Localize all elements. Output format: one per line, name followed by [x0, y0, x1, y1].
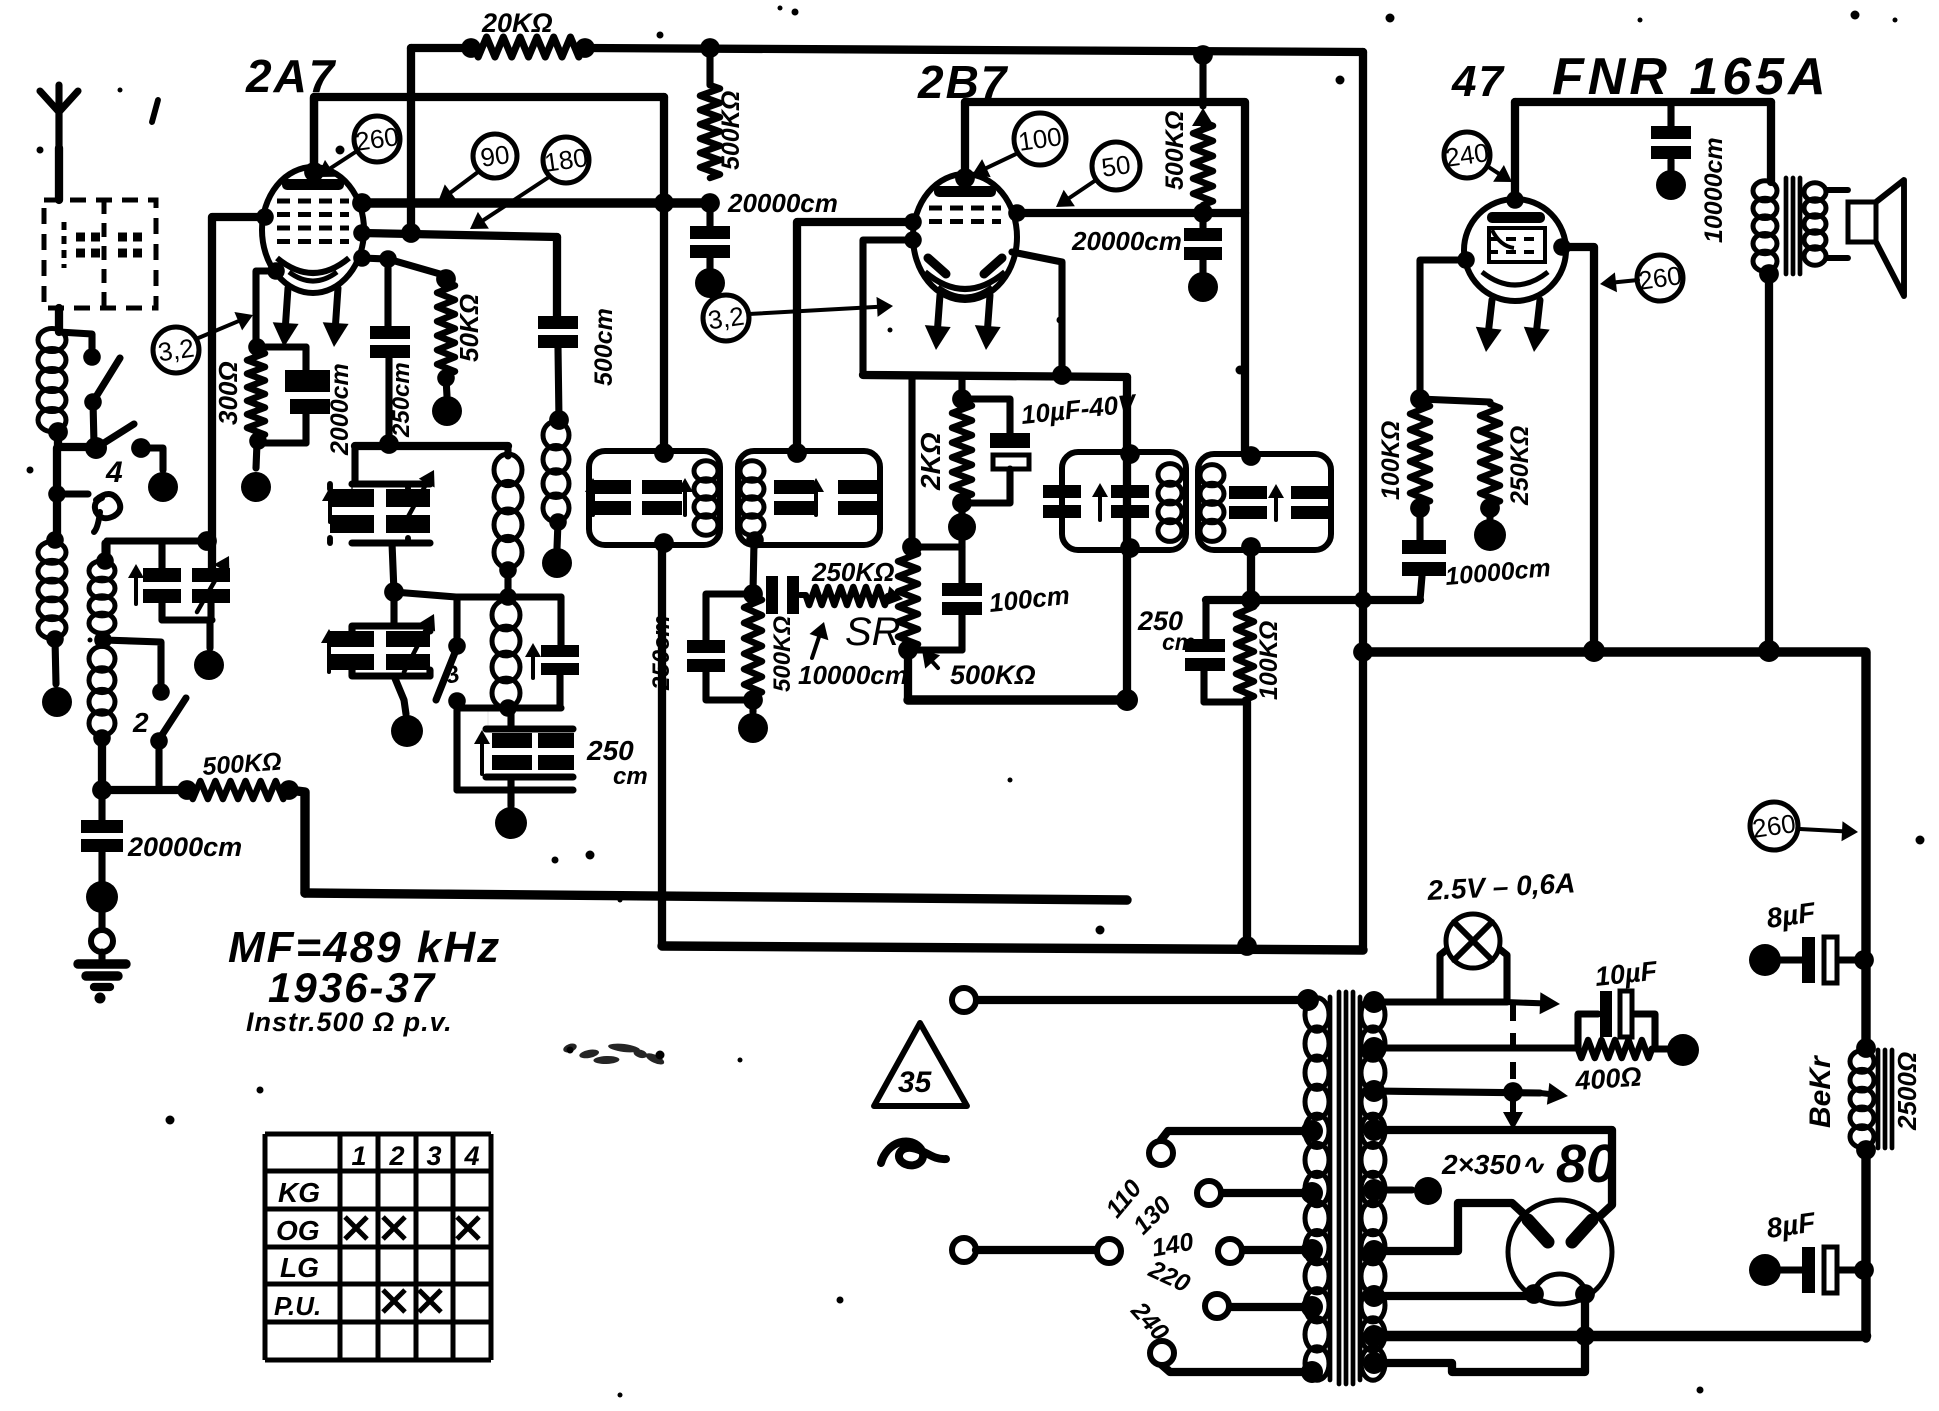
switch 1 contact — [83, 348, 101, 366]
ground blob L1b — [42, 687, 72, 717]
label 3 — [443, 660, 464, 690]
capacitor 20000cm antenna — [81, 790, 123, 852]
wire L1 tap to switch 1 — [59, 332, 92, 350]
coil osc1 — [494, 446, 522, 568]
wire L1 bottom bus — [58, 432, 96, 448]
coil L2 lower — [89, 646, 115, 735]
terminal tap110 — [1149, 1141, 1173, 1165]
label 250cm padder — [586, 735, 648, 790]
switch 3 pivot — [448, 692, 466, 710]
blob 400R — [1667, 1034, 1699, 1066]
bias bus — [1420, 399, 1490, 402]
svg-text:FNR 165A: FNR 165A — [1552, 48, 1830, 106]
IF4 cap2 — [1291, 486, 1329, 519]
osc3 bottom bus — [457, 701, 561, 708]
label 240 — [1125, 1296, 1174, 1347]
svg-text:300Ω: 300Ω — [213, 361, 243, 425]
node 500Kr bottom — [1193, 203, 1213, 223]
2B7 g2 line — [1017, 209, 1245, 217]
svg-text:LG: LG — [280, 1252, 319, 1283]
svg-text:10000cm: 10000cm — [1700, 137, 1728, 243]
svg-text:1936-37: 1936-37 — [268, 964, 436, 1011]
node L1 bottom — [48, 422, 68, 442]
node 8uF upper — [1854, 950, 1874, 970]
cathode bus 2B7 — [863, 375, 1127, 377]
wire L2 bottom down — [98, 738, 106, 790]
label 100KOhm det — [1255, 621, 1283, 700]
node sec 1336 — [1363, 1325, 1385, 1347]
svg-text:OG: OG — [276, 1215, 320, 1246]
lamp 2.5V — [1446, 914, 1500, 968]
svg-text:3,2: 3,2 — [156, 333, 196, 368]
node osc mid — [384, 582, 404, 602]
variable capacitor osc1a — [322, 487, 374, 533]
OT secondary — [1804, 183, 1826, 265]
blob 20000cm screen — [695, 268, 725, 298]
svg-text:35: 35 — [898, 1066, 933, 1099]
wire switch2 pivot down — [155, 741, 162, 788]
svg-text:50KΩ: 50KΩ — [454, 294, 484, 362]
switch 3 contact — [448, 637, 466, 655]
node sec 1048 — [1363, 1037, 1385, 1059]
node dashed cross — [1503, 1082, 1523, 1102]
dashed trimmer cap B — [118, 237, 146, 253]
label 10uF-40V — [1019, 388, 1139, 430]
potentiometer SR 500K — [898, 550, 918, 648]
svg-text:20KΩ: 20KΩ — [481, 8, 553, 38]
label BeKr — [1804, 1054, 1837, 1128]
svg-text:2: 2 — [132, 707, 149, 738]
capacitor 250cm det — [1185, 600, 1225, 702]
node tap220 — [1301, 1296, 1323, 1318]
heater arrow 2B7 left — [925, 295, 951, 350]
wire tap140 — [1242, 1246, 1312, 1254]
capacitor 10000cm plate — [1651, 102, 1691, 170]
svg-text:500KΩ: 500KΩ — [950, 660, 1036, 690]
table row OG — [276, 1215, 320, 1246]
2B7 top box — [965, 102, 1245, 453]
terminal tap220 — [1205, 1294, 1229, 1318]
arrow 50 to line — [1056, 180, 1096, 207]
wire L2 riser — [101, 543, 108, 562]
wire switch1 to bus — [93, 402, 94, 444]
wire fil right path — [1374, 1294, 1585, 1372]
svg-text:50: 50 — [1100, 149, 1133, 183]
2A7 top cap box wire — [314, 97, 664, 172]
node coil osc1 bottom — [499, 561, 517, 579]
variable capacitor ant trim B — [192, 556, 230, 612]
wire L1 down — [53, 448, 61, 540]
node 2K stub — [952, 389, 972, 409]
node sec top — [1363, 991, 1385, 1013]
node 2A7 cath left — [267, 262, 285, 280]
node fil right pin — [1575, 1284, 1595, 1304]
node osc3 bottom — [499, 699, 517, 717]
label 130 — [1128, 1191, 1177, 1240]
wire tap130 — [1221, 1189, 1312, 1197]
svg-text:500KΩ: 500KΩ — [201, 748, 282, 781]
svg-text:KG: KG — [278, 1177, 320, 1208]
label 10000cm AVC — [798, 660, 908, 690]
terminal tap130 — [1197, 1181, 1221, 1205]
47 bias wire — [1420, 251, 1475, 399]
wire IF2 to AVC node — [753, 542, 754, 592]
node fil left pin — [1524, 1284, 1544, 1304]
wire det to gnd rail — [1243, 702, 1251, 946]
table row KG — [278, 1177, 320, 1208]
fuse squiggle — [881, 1141, 946, 1165]
svg-text:260: 260 — [1750, 808, 1797, 844]
svg-text:80: 80 — [1556, 1134, 1616, 1194]
capacitor 10000cm bias — [1402, 508, 1446, 600]
label 100KOhm bias — [1377, 421, 1405, 500]
coil L1b — [38, 542, 66, 639]
table row LG — [280, 1252, 319, 1283]
wire mains top — [975, 996, 1308, 1004]
ant trimmer stub — [158, 541, 165, 568]
node B+ 652 — [1353, 642, 1373, 662]
node 2K bottom — [952, 493, 972, 513]
label 10000cm plate — [1700, 137, 1728, 243]
capacitor 20000cm diode — [1184, 213, 1222, 272]
label 250cm osc — [388, 362, 415, 438]
variable capacitor osc2b — [386, 614, 435, 672]
wire to cath blob — [256, 443, 257, 468]
node sec 1130 — [1363, 1119, 1385, 1141]
node 50K bottom — [437, 369, 455, 387]
svg-text:4: 4 — [105, 456, 123, 489]
speaker — [1827, 180, 1904, 296]
switch 4 arm — [96, 424, 134, 448]
label 500KOhm SR — [922, 650, 1036, 690]
terminal mains left — [952, 1238, 976, 1262]
PT secondary — [1360, 997, 1385, 1380]
resistor 100KOhm det — [1236, 603, 1254, 700]
label 250cm AVC — [648, 615, 675, 691]
svg-text:20000cm: 20000cm — [127, 832, 242, 862]
node 2A7 g2 pin — [352, 193, 372, 213]
switch 1 arm — [94, 358, 120, 400]
node IF3 bottom — [1120, 538, 1140, 558]
arrow 100 to top cap — [972, 153, 1018, 177]
arrow 10000cm to cap — [810, 622, 829, 658]
node AVC bottom — [743, 690, 763, 710]
blob osc — [391, 715, 423, 747]
value circle 3,2 right — [703, 295, 749, 341]
node sec 1363 — [1363, 1352, 1385, 1374]
osc bottom bus — [457, 786, 573, 793]
2B7 top cap lead — [955, 102, 975, 188]
PT primary — [1305, 997, 1330, 1380]
node PT prim top — [1297, 989, 1319, 1011]
wire 20K vertical — [407, 48, 415, 233]
wire HV bottom — [1374, 1203, 1526, 1251]
variable capacitor padder a — [474, 730, 532, 774]
capacitor 250cm AVC — [687, 594, 753, 700]
capacitor padder b — [538, 733, 574, 770]
node 20K left — [461, 38, 481, 58]
svg-text:cm: cm — [613, 763, 648, 790]
node rail OT — [1758, 640, 1780, 662]
wire lamp tap — [1374, 998, 1440, 1005]
svg-text:20000cm: 20000cm — [727, 188, 838, 218]
wire 500K to gnd rail — [289, 790, 305, 893]
table X OG-4 — [457, 1217, 479, 1239]
node L2 mid — [94, 631, 112, 649]
blob 2B7 cathode — [948, 513, 976, 541]
capacitor 10uF filament — [1578, 991, 1655, 1048]
wire cap to blob — [98, 852, 105, 882]
heater arrow 2A7 right — [323, 288, 349, 347]
label 20000cm diode — [1071, 226, 1182, 256]
padder bus bottom — [486, 777, 573, 790]
wire osc mid to switch bus — [394, 592, 456, 597]
svg-text:cm: cm — [1162, 629, 1195, 655]
ant trimmer riser — [103, 541, 110, 560]
node IF1 bottom — [654, 533, 674, 553]
osc top bus — [355, 442, 508, 450]
osc pair1 frame — [352, 446, 430, 484]
node sec 1190 — [1363, 1179, 1385, 1201]
PT core — [1339, 992, 1353, 1384]
blob AVC — [738, 713, 768, 743]
resistor 500KOhm AVC — [744, 596, 762, 696]
node 20K drop — [401, 223, 421, 243]
47 grid wire — [1562, 247, 1594, 650]
node tap240 — [1301, 1361, 1323, 1383]
label 110 — [1100, 1175, 1147, 1224]
label 2.5V-0.6A — [1426, 867, 1576, 906]
wire antenna to coil L1 — [55, 308, 63, 332]
node 300R bottom — [249, 432, 267, 450]
svg-text:2500Ω: 2500Ω — [1892, 1052, 1922, 1131]
label Instr — [246, 1007, 453, 1037]
label FNR 165A — [1552, 48, 1830, 106]
wire IF1 down to gnd rail — [658, 545, 666, 946]
hook 9 wire — [57, 494, 120, 532]
IF can 1 box — [589, 451, 720, 545]
arrow 3,2 to tube — [196, 312, 253, 339]
node 250cm top — [379, 250, 397, 268]
label 80 — [1556, 1134, 1616, 1194]
label 300Ohm — [213, 361, 243, 425]
AGC bus y700 — [908, 695, 1127, 704]
value circle 240 — [1443, 132, 1490, 178]
osc padder frame — [457, 708, 511, 790]
node 2A7 g1 pin — [353, 224, 371, 242]
terminal blob P.U. top — [148, 472, 178, 502]
wire tap110 — [1161, 1131, 1312, 1140]
B+ vertical — [1359, 52, 1367, 950]
terminal mains top — [952, 988, 976, 1012]
svg-text:500KΩ: 500KΩ — [1161, 111, 1189, 190]
capacitor 100cm — [942, 547, 982, 650]
wire mains pair — [976, 1246, 1096, 1254]
coil osc3 — [492, 600, 520, 708]
svg-text:SR: SR — [845, 610, 901, 654]
antenna bottom bus — [102, 786, 187, 794]
node AVC junction — [743, 584, 763, 604]
node 2B7 g2 — [1008, 204, 1026, 222]
blob 10000cm plate — [1656, 170, 1686, 200]
wire HV mid to blob — [1374, 1186, 1412, 1193]
wire 400R tap — [1374, 1044, 1578, 1051]
svg-text:2: 2 — [388, 1141, 404, 1171]
node ant trimmer bus — [197, 531, 217, 551]
resistor 100KOhm bias — [1410, 402, 1430, 505]
svg-text:2×350∿: 2×350∿ — [1441, 1149, 1545, 1180]
top rail right — [585, 48, 1363, 52]
2B7 cathode box — [863, 240, 913, 375]
node sec 1091 — [1363, 1080, 1385, 1102]
node hook — [48, 485, 66, 503]
label 10000cm bias — [1444, 554, 1552, 591]
svg-text:100KΩ: 100KΩ — [1255, 621, 1283, 700]
node IF3 top — [1120, 444, 1140, 464]
wire IF2 to 2B7 grid — [797, 222, 912, 451]
blob 20000cm diode — [1188, 272, 1218, 302]
capacitor 8uF lower — [1749, 1247, 1862, 1293]
wire 10uF top — [962, 399, 1010, 433]
IF2 cap2 — [838, 480, 878, 515]
node IF4 top — [1241, 446, 1261, 466]
wire to osc blob — [507, 790, 514, 806]
label 500cm — [590, 308, 618, 386]
80 plate left — [1528, 1220, 1548, 1242]
table X PU-2 — [383, 1290, 405, 1312]
label 500KOhm diode — [1161, 111, 1189, 190]
node L2 top — [96, 552, 114, 570]
wire plate vert — [1123, 377, 1131, 700]
node screen-vert — [654, 193, 674, 213]
svg-text:260: 260 — [1636, 260, 1683, 296]
node sec 1296 — [1363, 1285, 1385, 1307]
label SR — [845, 610, 901, 654]
svg-text:90: 90 — [479, 139, 512, 173]
node 300R top — [248, 338, 266, 356]
wire box right side — [660, 97, 668, 453]
label 1936-37 — [268, 964, 436, 1011]
svg-text:3: 3 — [426, 1141, 441, 1171]
dashed coupling box — [44, 200, 156, 308]
blob 50K — [432, 396, 462, 426]
SR bottom bus — [908, 646, 962, 653]
wire 50K to blob — [446, 378, 447, 396]
blob antenna gnd — [86, 881, 118, 913]
tube 2A7 — [262, 167, 364, 293]
osc pair2 frame — [352, 592, 430, 631]
svg-text:P.U.: P.U. — [274, 1291, 321, 1321]
value circle 100 — [1014, 113, 1066, 165]
wire tap240 — [1162, 1365, 1312, 1372]
heater arrow 47 right — [1524, 300, 1550, 352]
resistor 500KOhm antenna — [189, 781, 287, 799]
IF1 trimmer cap — [585, 478, 631, 515]
IF1 cap2 — [642, 478, 693, 515]
label 400Ohm — [1573, 1061, 1642, 1096]
wire cath to SR top — [912, 377, 962, 547]
node 2B7 cath pin — [904, 231, 922, 249]
tube 2B7 — [913, 174, 1017, 300]
node tap140 — [1301, 1239, 1323, 1261]
node L2 bottom — [93, 729, 111, 747]
det bottom bus — [1204, 698, 1245, 705]
IF can 4 box — [1198, 454, 1331, 550]
OT primary — [1753, 181, 1777, 272]
svg-text:1: 1 — [351, 1141, 366, 1171]
svg-text:500KΩ: 500KΩ — [717, 91, 745, 170]
node ant bus — [92, 780, 112, 800]
node IF4 bottom — [1241, 537, 1261, 557]
switch 2 contact — [152, 683, 170, 701]
wire tap220 — [1229, 1303, 1312, 1311]
wire switch4 contact to blob — [141, 448, 163, 470]
ground symbol — [78, 952, 126, 1004]
label 250KOhm — [811, 557, 894, 587]
node 20K right — [575, 38, 595, 58]
terminal mains right — [1097, 1239, 1121, 1263]
osc pair1 bottom — [330, 484, 430, 592]
arrow 260 to grid wire — [1600, 272, 1638, 292]
wire IF4 to grid bus — [1247, 549, 1255, 600]
blob HV mid — [1414, 1177, 1442, 1205]
svg-text:Instr.500 Ω p.v.: Instr.500 Ω p.v. — [246, 1007, 453, 1037]
node IF1 top — [654, 443, 674, 463]
label 500KOhm AVC — [769, 616, 796, 692]
table row PU — [274, 1291, 321, 1321]
terminal antenna gnd — [91, 930, 113, 952]
svg-text:500cm: 500cm — [590, 308, 618, 386]
arrow 260 to top cap — [317, 151, 357, 177]
label 140 — [1150, 1228, 1196, 1263]
resistor 300Ohm — [247, 350, 265, 438]
svg-text:240: 240 — [1443, 137, 1490, 173]
coil K (cathode feedback) — [543, 421, 569, 522]
table header numbers — [351, 1141, 479, 1171]
node SR top — [902, 537, 922, 557]
value circle 50 — [1092, 142, 1140, 190]
node 2A7 grid left — [256, 208, 274, 226]
trimmer cap osc3 — [525, 597, 579, 708]
node grid bus — [1241, 590, 1261, 610]
wire HV top — [1374, 1130, 1612, 1218]
node 8uF lower — [1854, 1260, 1874, 1280]
wire coilK to blob — [557, 522, 558, 548]
arrow 240 to top cap — [1487, 165, 1512, 182]
wire plate to OT — [1767, 102, 1775, 182]
node 2B7 grid pin — [904, 213, 922, 231]
arrow 250K into SR — [885, 586, 903, 606]
bottom rail — [1368, 1331, 1866, 1342]
IF3 cap1 — [1043, 483, 1108, 520]
antenna — [40, 85, 78, 200]
IF4 coil — [1200, 465, 1224, 542]
IF4 cap1 — [1229, 484, 1284, 520]
svg-text:500KΩ: 500KΩ — [769, 616, 796, 692]
capacitor 250cm (osc grid) — [370, 259, 410, 440]
wire 2K stub — [958, 377, 965, 402]
resistor 50KOhm — [437, 282, 455, 375]
terminal tap140 — [1218, 1239, 1242, 1263]
svg-text:250cm: 250cm — [648, 615, 675, 691]
arrow 3,2 to 2B7 — [749, 297, 893, 317]
arrow 260 to B+ line — [1800, 821, 1858, 841]
svg-text:47: 47 — [1451, 57, 1505, 106]
label 2500Ohm — [1892, 1052, 1922, 1131]
wire L1b to blob — [55, 639, 56, 684]
80 plate right — [1572, 1220, 1592, 1242]
svg-text:100: 100 — [1016, 121, 1063, 157]
